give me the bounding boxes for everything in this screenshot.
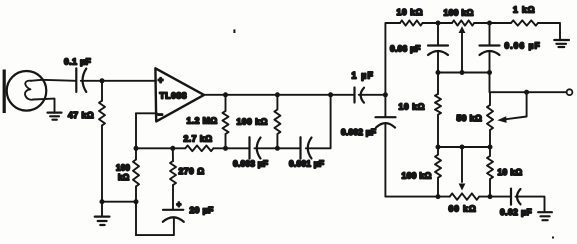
node input junction <box>100 78 105 83</box>
node 1.2M bottom junction <box>223 146 228 151</box>
ground mic <box>48 113 62 120</box>
node 100k mid top junction <box>275 92 280 97</box>
wire wiper of 100k pot <box>461 33 463 73</box>
svg-text:0.06 µF: 0.06 µF <box>390 44 421 54</box>
node mid right junction <box>487 70 492 75</box>
resistor R 1.2M <box>223 95 229 149</box>
wire C1 to op-amp input <box>81 80 156 82</box>
wire 0.003 to 100k node <box>255 147 301 149</box>
wire 0.06 right down <box>489 52 491 73</box>
wire node B stem <box>489 23 491 45</box>
capacitor C 0.003uF plates <box>213 147 249 149</box>
ground bottom right <box>538 212 552 220</box>
terminal output circle <box>567 89 573 95</box>
svg-text:100: 100 <box>116 164 130 173</box>
resistor R 60k pot <box>450 193 480 199</box>
wire 0.002 down to bottom rail <box>385 124 438 197</box>
arrow wiper up <box>459 26 466 33</box>
resistor R 100k pot top <box>452 20 474 25</box>
svg-text:1 kΩ: 1 kΩ <box>513 5 535 15</box>
capacitor C1 0.1uF plates <box>75 68 77 92</box>
resistor R 100k mid <box>274 95 280 149</box>
svg-text:2.7 kΩ: 2.7 kΩ <box>184 134 213 144</box>
wire bottom rail segs <box>438 196 510 198</box>
capacitor C 0.002uF plates <box>376 116 396 118</box>
resistor R 1k <box>511 20 538 25</box>
svg-text:TL088: TL088 <box>160 91 188 101</box>
capacitor C 0.02uF plates <box>510 189 512 205</box>
node 47k bottom junction <box>100 199 105 204</box>
node bottom left junction <box>436 194 441 199</box>
microphone MIC circle <box>7 71 47 111</box>
node 100k mid bottom junction <box>275 146 280 151</box>
capacitor C 20uF plates <box>163 209 183 211</box>
microphone MIC body bar <box>3 70 6 114</box>
node P junction <box>383 92 388 97</box>
capacitor C 0.06uF right plates <box>480 44 500 46</box>
arrow wiper down <box>459 184 466 191</box>
speckle mark 2 <box>552 237 554 239</box>
wire 0.02 to ground <box>516 197 545 212</box>
svg-text:100 kΩ: 100 kΩ <box>237 116 268 126</box>
resistor R 10k bottom-right <box>487 147 493 197</box>
node inverting junction <box>134 146 139 151</box>
node rail147 left junction <box>436 145 441 150</box>
wire bottom return <box>136 219 174 236</box>
wire node A stem <box>437 23 439 45</box>
svg-text:0.06 µF: 0.06 µF <box>505 41 541 51</box>
svg-text:270 Ω: 270 Ω <box>179 166 205 176</box>
svg-text:50 kΩ: 50 kΩ <box>457 113 483 123</box>
node rail147 center junction <box>460 145 465 150</box>
speckle mark <box>233 29 235 33</box>
svg-text:1.2 MΩ: 1.2 MΩ <box>187 116 218 126</box>
resistor R 270 <box>170 161 176 185</box>
resistor R 100k lower-left <box>133 160 139 187</box>
node mid center junction <box>460 70 465 75</box>
svg-text:0.002 µF: 0.002 µF <box>341 127 376 137</box>
wire 1uF to node P <box>359 94 386 96</box>
arrow wiper left <box>497 116 506 123</box>
wire ground rail to inverting branch <box>102 201 136 203</box>
wire inverting node vertical <box>135 113 137 159</box>
wire wiper of 60k pot <box>461 147 463 182</box>
svg-text:kΩ: kΩ <box>118 173 130 182</box>
wire 0.06 left down <box>437 52 439 73</box>
wire feedback rail left <box>136 147 185 149</box>
wire 1k to ground <box>538 23 560 39</box>
wire node P riser to top rail <box>385 23 400 95</box>
wire op-amp output rail <box>204 94 354 96</box>
ground top right <box>554 40 569 47</box>
svg-text:10 kΩ: 10 kΩ <box>397 7 424 17</box>
node bottom right junction <box>488 194 493 199</box>
wire right chain to output node <box>490 73 567 93</box>
node mid left junction <box>436 70 441 75</box>
svg-text:+: + <box>158 75 164 85</box>
microphone MIC element <box>25 81 34 100</box>
ground under 47k <box>101 202 103 216</box>
node top B junction <box>487 21 492 26</box>
svg-text:20 µF: 20 µF <box>190 205 214 215</box>
svg-text:0.001 µF: 0.001 µF <box>289 159 324 169</box>
node ground-side junction <box>134 199 139 204</box>
wire middle rail <box>438 72 490 74</box>
wire 270 to 20uF <box>172 185 174 209</box>
svg-text:0.003 µF: 0.003 µF <box>233 159 268 169</box>
resistor R 50k pot <box>487 92 493 147</box>
wire 0.001 riser to rail <box>306 95 331 149</box>
svg-text:100 kΩ: 100 kΩ <box>444 7 474 17</box>
resistor R 47k <box>99 101 105 126</box>
svg-text:100 kΩ: 100 kΩ <box>402 170 432 180</box>
capacitor C 0.001uF plates <box>299 137 301 158</box>
svg-text:0.1 µF: 0.1 µF <box>64 56 91 66</box>
node output tap junction <box>524 90 529 95</box>
node top A junction <box>436 21 441 26</box>
wire 270 top lead <box>172 148 174 161</box>
resistor R 100k bottom <box>435 147 441 197</box>
wire mic top lead to C1 <box>31 80 76 81</box>
op-amp U1 TL088 triangle <box>155 68 204 121</box>
resistor R 10k top <box>400 20 423 25</box>
wire 47k top lead <box>101 81 103 101</box>
node output junction <box>223 92 228 97</box>
node rail147 right junction <box>488 145 493 150</box>
resistor R 2.7k <box>185 146 213 152</box>
svg-text:10 kΩ: 10 kΩ <box>399 102 426 112</box>
svg-text:–: – <box>158 109 163 119</box>
svg-text:1 µF: 1 µF <box>352 71 375 81</box>
wire node P down to 0.002 <box>384 95 386 117</box>
capacitor C 0.06uF left plates <box>428 44 448 46</box>
svg-text:10 kΩ: 10 kΩ <box>498 167 523 177</box>
svg-text:+: + <box>177 200 182 209</box>
wire top rail seg1 <box>423 22 453 24</box>
wire 100k bottom <box>135 187 137 236</box>
wire top rail seg2 <box>474 22 511 24</box>
wire mic bottom lead <box>33 99 55 112</box>
wire inverting input <box>136 112 157 114</box>
node 270 top junction <box>170 146 175 151</box>
wire 47k bottom lead <box>101 125 103 201</box>
wire wiper of 50k pot <box>506 92 527 119</box>
node riser junction <box>328 92 333 97</box>
resistor R 10k mid-left <box>435 73 441 148</box>
svg-text:47 kΩ: 47 kΩ <box>68 110 94 120</box>
svg-text:60 kΩ: 60 kΩ <box>449 204 477 214</box>
svg-text:0.02 µF: 0.02 µF <box>500 207 532 217</box>
wire rail 147 <box>438 146 490 148</box>
capacitor C 1uF plates <box>353 88 355 103</box>
